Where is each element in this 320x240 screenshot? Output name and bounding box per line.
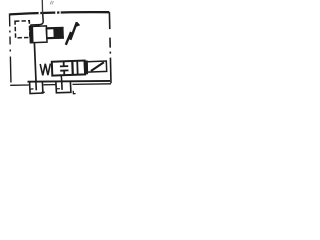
- blocked port symbol: top crossbar: [60, 65, 68, 67]
- open flow path in right square: [76, 61, 79, 75]
- pilot solenoid fill (dark right part): [53, 28, 64, 39]
- enclosure left border (dash-dot): [10, 14, 12, 86]
- main valve center divider: [71, 61, 74, 75]
- tank B symbol: [56, 82, 71, 93]
- tank B ghost bar: [56, 88, 60, 90]
- wire: main valve tank port down to tank line: [60, 75, 63, 81]
- pilot relief valve body square: [30, 26, 47, 43]
- main valve body outline: [52, 61, 85, 76]
- wire: pilot supply line P above border (faint): [41, 0, 43, 15]
- enclosure bottom border: [10, 84, 111, 86]
- main solenoid box: [87, 61, 107, 72]
- scan break in top border: [55, 10, 57, 14]
- pilot solenoid box bottom edge: [47, 36, 64, 39]
- tank B pipe: [61, 81, 63, 90]
- wire: dip into pilot valve top-left corner: [30, 25, 32, 27]
- wire: pilot drain from pilot valve bottom down to tank line: [34, 43, 36, 82]
- wire: pilot supply line P below border, curving into jog: [30, 14, 43, 25]
- pilot valve flow arrow (vertical thick bar at left edge): [30, 27, 34, 42]
- blocked port symbol: bottom stub: [63, 70, 65, 75]
- tank A right tick: [41, 91, 45, 93]
- blocked port symbol: top stub: [63, 61, 65, 66]
- dashed pilot box: [15, 21, 30, 38]
- scan break in top border: [59, 10, 60, 14]
- wire: supply stub into pilot valve top: [37, 24, 39, 27]
- tank drain manifold line: [28, 80, 111, 83]
- blocked port symbol: bottom crossbar: [60, 69, 68, 71]
- pilot solenoid box top edge: [46, 27, 63, 30]
- tank A ghost bar: [30, 88, 34, 90]
- adjustment lightning arrow, lower stroke: [66, 32, 71, 45]
- enclosure right border (dash-dot): [109, 12, 111, 83]
- faint scan scribble above border: [50, 1, 53, 5]
- enclosure top border: [10, 12, 110, 14]
- small drain L mark right of tank B: [73, 91, 75, 94]
- tank A pipe: [35, 82, 37, 91]
- scan fade in top border left of P-line: [39, 11, 41, 14]
- adjustment lightning arrow, upper stroke: [70, 22, 77, 40]
- tank A symbol: [30, 82, 43, 94]
- pilot solenoid box left edge: [45, 28, 48, 39]
- main solenoid diagonal (proportional): [91, 62, 104, 71]
- arrowhead of lightning arrow: [76, 22, 80, 27]
- spring W on left of main valve: [40, 64, 50, 76]
- junction blob valve right edge / solenoid: [84, 60, 89, 74]
